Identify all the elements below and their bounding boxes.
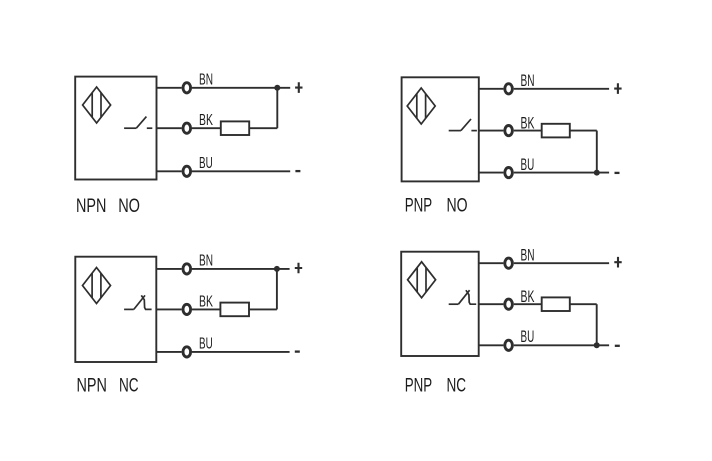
wire BK: terminal to resistor xyxy=(192,127,221,129)
svg-text:BU: BU xyxy=(521,327,535,346)
minus (-) supply terminal xyxy=(295,350,300,352)
svg-text:BU: BU xyxy=(199,155,213,172)
wire BN: box to terminal xyxy=(479,88,504,90)
diamond inner line right xyxy=(100,93,102,118)
svg-text:NO: NO xyxy=(447,195,468,217)
resistor xyxy=(221,121,249,135)
wire: corner up to BN junction xyxy=(276,88,278,128)
terminal circle BU xyxy=(183,347,191,357)
sensor symbol (diamond) xyxy=(83,87,111,123)
wire BU: box to terminal xyxy=(157,170,182,172)
terminal circle BU xyxy=(183,166,191,176)
wire BN: box to terminal xyxy=(156,268,181,270)
svg-text:NC: NC xyxy=(119,375,139,397)
NC switch: contact arm xyxy=(141,295,151,309)
svg-text:NPN: NPN xyxy=(76,195,106,217)
plus (+) supply terminal xyxy=(295,82,302,93)
plus (+) supply terminal xyxy=(295,263,302,274)
wire BU: terminal to minus xyxy=(514,344,609,346)
wire BN: terminal to plus xyxy=(514,88,609,90)
terminal circle BK xyxy=(505,126,513,136)
terminal circle BU xyxy=(505,340,513,350)
sensor symbol (diamond) xyxy=(408,262,436,298)
minus (-) supply terminal xyxy=(615,172,620,174)
resistor xyxy=(542,124,570,138)
minus (-) supply terminal xyxy=(295,170,300,172)
NO switch: left lead xyxy=(449,130,461,132)
wire BU: box to terminal xyxy=(479,344,504,346)
plus (+) supply terminal xyxy=(614,83,621,94)
sensor box (NPN NO) xyxy=(75,77,156,180)
terminal circle BU xyxy=(505,168,513,178)
junction dot on BN xyxy=(274,266,280,272)
NO switch: left lead xyxy=(124,127,136,129)
terminal circle BN xyxy=(505,258,513,268)
wire BK: resistor to corner xyxy=(570,130,597,132)
terminal circle BK xyxy=(505,299,513,309)
wire BN: terminal to plus xyxy=(514,262,609,264)
wire BK: resistor to corner xyxy=(570,303,597,305)
svg-text:BK: BK xyxy=(521,114,535,133)
wire BK: box to terminal xyxy=(479,303,504,305)
resistor xyxy=(542,297,570,311)
wire BK: terminal to resistor xyxy=(514,303,542,305)
resistor xyxy=(220,303,249,317)
sensor symbol (diamond) xyxy=(407,88,435,124)
terminal circle BK xyxy=(183,304,191,314)
NC switch: contact arm xyxy=(466,290,476,304)
NC switch: left lead xyxy=(449,303,459,305)
svg-text:BN: BN xyxy=(199,253,213,270)
wire BK: resistor to corner xyxy=(249,308,277,310)
NO switch: lever xyxy=(136,117,146,129)
svg-text:BN: BN xyxy=(521,245,535,264)
svg-text:PNP: PNP xyxy=(405,195,432,217)
svg-text:PNP: PNP xyxy=(405,374,432,396)
sensor symbol (diamond) xyxy=(83,268,111,304)
junction dot on BU xyxy=(594,342,600,348)
wire BK: box to terminal xyxy=(156,308,181,310)
wire BK: box to terminal xyxy=(157,127,182,129)
NO switch: lever xyxy=(461,119,471,131)
svg-text:BN: BN xyxy=(521,71,535,90)
svg-text:BK: BK xyxy=(521,287,535,306)
junction dot on BU xyxy=(594,170,600,176)
svg-text:BU: BU xyxy=(199,335,213,352)
minus (-) supply terminal xyxy=(615,345,620,347)
wire: corner down to BU junction xyxy=(596,131,598,173)
diamond inner line right xyxy=(100,273,102,298)
wire BK: box to terminal xyxy=(479,130,504,132)
diamond inner line left xyxy=(91,273,93,298)
wire: corner down to BU junction xyxy=(596,304,598,345)
terminal circle BN xyxy=(505,84,513,94)
wire BK: resistor to corner xyxy=(249,127,277,129)
svg-text:BN: BN xyxy=(199,71,213,88)
NC switch: left lead xyxy=(124,308,134,310)
wire BU: terminal to minus xyxy=(192,351,290,353)
svg-text:BU: BU xyxy=(521,155,535,174)
wire BN: box to terminal xyxy=(479,262,504,264)
sensor box (PNP NC) xyxy=(401,252,479,356)
svg-text:NPN: NPN xyxy=(77,375,107,397)
NO switch: right dash xyxy=(471,130,477,132)
wire BU: box to terminal xyxy=(156,351,181,353)
wire BK: terminal to resistor xyxy=(192,308,220,310)
svg-text:BK: BK xyxy=(199,112,213,129)
junction dot on BN xyxy=(274,85,280,91)
terminal circle BN xyxy=(183,264,191,274)
diamond inner line right xyxy=(425,268,427,293)
sensor box (PNP NO) xyxy=(402,77,479,181)
sensor box (NPN NC) xyxy=(75,257,156,362)
wire BU: terminal to minus xyxy=(514,172,609,174)
svg-text:NO: NO xyxy=(118,195,140,217)
terminal circle BN xyxy=(183,83,191,93)
svg-text:BK: BK xyxy=(199,293,213,310)
wire: corner up to BN junction xyxy=(276,269,278,310)
wire BU: terminal to minus xyxy=(192,170,290,172)
diamond inner line left xyxy=(91,93,93,118)
plus (+) supply terminal xyxy=(614,257,621,268)
diamond inner line left xyxy=(416,94,418,119)
wire BN: terminal to plus xyxy=(192,268,290,270)
NO switch: right dash xyxy=(147,127,153,129)
diamond inner line left xyxy=(416,268,418,293)
NC switch: lever xyxy=(134,295,145,309)
wire BN: terminal to plus xyxy=(192,87,290,89)
NC switch: lever xyxy=(458,290,469,304)
wire BK: terminal to resistor xyxy=(514,130,542,132)
diamond inner line right xyxy=(425,94,427,119)
terminal circle BK xyxy=(183,123,191,133)
svg-text:NC: NC xyxy=(447,374,467,396)
wire BU: box to terminal xyxy=(479,172,504,174)
wire BN: box to terminal xyxy=(157,87,182,89)
